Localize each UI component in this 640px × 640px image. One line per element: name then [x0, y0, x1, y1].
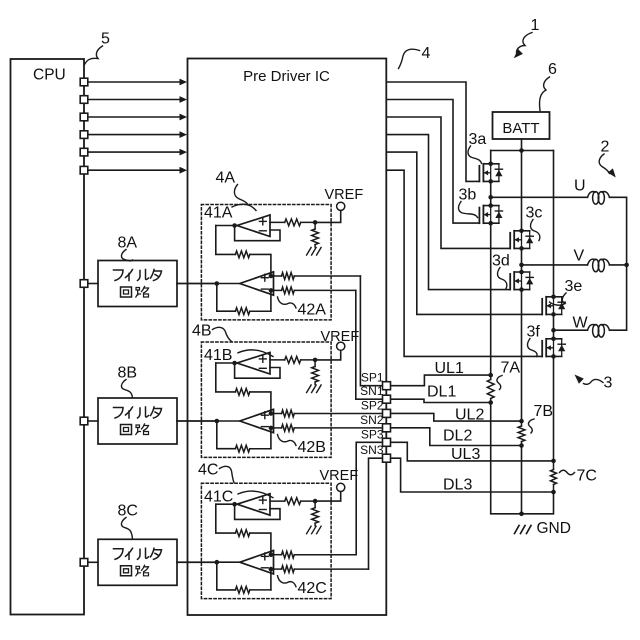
Pre Driver IC U4 — [188, 59, 387, 616]
terminal SN1 — [383, 395, 391, 403]
label 4B — [192, 323, 212, 340]
ground below VREF resistor A — [307, 248, 322, 256]
label SN1 — [360, 384, 384, 398]
CPU block U5 — [11, 59, 85, 615]
resistor 7C — [551, 459, 557, 495]
op-amp 41B — [237, 353, 270, 375]
wire 3d source to shunt 7B — [521, 290, 523, 422]
svg-text:6: 6 — [548, 61, 557, 78]
wire 41C output — [216, 502, 237, 507]
resistor VREF B to ground — [312, 360, 319, 385]
op-amp 42C — [240, 551, 274, 574]
svg-text:GND: GND — [537, 520, 571, 537]
label 7A leader — [497, 376, 502, 390]
wire filter 8C to amplifier — [177, 561, 217, 563]
svg-text:DL1: DL1 — [427, 384, 456, 401]
label 5 leader — [85, 46, 103, 65]
label 3a — [469, 131, 487, 148]
svg-text:3a: 3a — [469, 131, 487, 148]
label 41B leader — [238, 350, 273, 357]
label 8C leader — [121, 518, 132, 539]
svg-text:41C: 41C — [204, 488, 233, 505]
svg-text:CPU: CPU — [33, 67, 66, 84]
resistor 42A P input — [269, 273, 361, 280]
resistor 42B feedback — [217, 421, 271, 452]
wire 42A output P to SP1 — [360, 276, 382, 386]
label W — [573, 315, 589, 332]
signal wire CPU to Pre Driver IC 2 — [88, 96, 187, 103]
svg-text:BATT: BATT — [502, 120, 539, 137]
svg-text:SP2: SP2 — [361, 398, 384, 412]
svg-text:UL1: UL1 — [435, 360, 464, 377]
label 1 leader — [517, 33, 533, 53]
label 7B leader — [528, 419, 534, 433]
CPU output terminal 6 — [80, 166, 88, 174]
label 42A — [298, 301, 327, 318]
label 42B leader — [278, 435, 297, 446]
svg-text:SN2: SN2 — [360, 413, 384, 427]
label 2 leader — [599, 154, 609, 174]
node VREF C — [313, 499, 318, 504]
label 41B — [204, 347, 232, 364]
label UL3 — [451, 446, 480, 463]
svg-text:VREF: VREF — [320, 468, 359, 484]
CPU output terminal 4 — [80, 131, 88, 139]
svg-text:42B: 42B — [298, 439, 326, 456]
wire VREF C — [315, 492, 341, 502]
svg-text:8B: 8B — [118, 365, 138, 382]
op-amp 41A — [237, 215, 270, 237]
ground GND symbol — [515, 526, 532, 534]
wire 41A feedback — [235, 226, 280, 241]
signal wire CPU to Pre Driver IC 1 — [88, 79, 187, 86]
label 4C leader — [220, 466, 235, 482]
terminal VREF A — [337, 202, 345, 210]
label 6 leader — [540, 77, 550, 111]
label 3f — [527, 324, 541, 341]
label 42C leader — [278, 576, 297, 587]
CPU terminal to filter 8B — [80, 417, 98, 425]
resistor 42C N input — [269, 566, 369, 573]
resistor 41C input — [270, 498, 315, 505]
transistor Q3e — [542, 295, 565, 317]
svg-text:5: 5 — [101, 31, 110, 48]
svg-text:Pre Driver IC: Pre Driver IC — [243, 68, 330, 85]
svg-text:8A: 8A — [118, 235, 138, 252]
wire VREF A — [315, 210, 341, 222]
label DL3 — [443, 477, 472, 494]
ground below VREF resistor B — [307, 385, 322, 393]
label UL2 — [455, 407, 484, 424]
label 7A — [501, 360, 521, 377]
label 3b leader — [458, 202, 477, 218]
terminal SP2 — [383, 409, 391, 417]
svg-text:3c: 3c — [526, 205, 543, 222]
svg-text:3f: 3f — [527, 324, 541, 341]
resistor 7B — [518, 419, 525, 448]
svg-text:2: 2 — [601, 139, 610, 156]
svg-text:8C: 8C — [118, 503, 138, 520]
wire 3e source to phase W node — [551, 314, 556, 339]
svg-text:7B: 7B — [534, 403, 554, 420]
svg-text:41B: 41B — [204, 347, 232, 364]
label 3 arrowhead — [575, 375, 584, 384]
svg-text:4A: 4A — [216, 170, 236, 187]
signal wire CPU to Pre Driver IC 3 — [88, 114, 187, 121]
terminal VREF B — [337, 342, 345, 350]
CPU output terminal 2 — [80, 96, 88, 104]
wire 42B output to filter — [177, 419, 240, 424]
label V — [574, 248, 585, 265]
wire VREF B — [315, 350, 341, 360]
label 3 leader — [584, 379, 604, 384]
svg-text:42C: 42C — [298, 580, 327, 597]
wire W inductor to star point — [610, 265, 627, 330]
terminal VREF C — [337, 483, 345, 491]
label SP2 — [361, 398, 384, 412]
wire 3f source to shunt 7C — [553, 356, 555, 461]
dashed block 4A — [201, 205, 331, 320]
op-amp 42B — [240, 409, 274, 432]
wire 41A output — [216, 223, 237, 228]
label SN2 — [360, 413, 384, 427]
op-amp 42A — [240, 272, 274, 295]
inductor motor winding W — [588, 324, 610, 337]
label 6 — [548, 61, 557, 78]
svg-text:7A: 7A — [501, 360, 521, 377]
label 4A — [216, 170, 236, 187]
svg-text:1: 1 — [531, 17, 540, 34]
wire shunts to GND rail — [491, 403, 554, 517]
wire rail to 3e drain — [553, 151, 555, 297]
svg-text:W: W — [573, 315, 589, 332]
resistor 41C to 42C — [216, 504, 271, 555]
terminal SN3 — [383, 454, 391, 462]
wire DL3 — [391, 458, 554, 492]
svg-text:SP3: SP3 — [361, 427, 384, 441]
signal wire CPU to Pre Driver IC 5 — [88, 149, 187, 156]
svg-text:UL2: UL2 — [455, 407, 484, 424]
label SP1 — [361, 371, 384, 385]
label VREF B — [321, 329, 360, 345]
svg-text:4B: 4B — [192, 323, 212, 340]
inductor motor winding U — [588, 192, 610, 205]
wire DL1 — [391, 399, 491, 402]
transistor Q3b — [479, 203, 502, 225]
svg-text:DL3: DL3 — [443, 477, 472, 494]
transistor Q3a — [479, 162, 502, 184]
wire 42C output P to SP3 — [356, 442, 382, 554]
wire 41C feedback — [235, 504, 280, 519]
label DL1 — [427, 384, 456, 401]
label 42B — [298, 439, 326, 456]
CPU terminal to filter 8C — [80, 559, 98, 567]
wire 3b source to shunt 7A — [490, 223, 492, 375]
wire 3c source to phase V node — [519, 248, 524, 272]
svg-text:UL3: UL3 — [451, 446, 480, 463]
node VREF A — [313, 220, 318, 225]
resistor 41A input — [270, 219, 315, 226]
label UL1 — [435, 360, 464, 377]
label SP3 — [361, 427, 384, 441]
dashed block 4C — [201, 483, 331, 598]
svg-text:DL2: DL2 — [443, 428, 472, 445]
label 41A — [204, 205, 233, 222]
label 7B — [534, 403, 554, 420]
label 3d — [492, 253, 510, 270]
resistor 41B input — [270, 357, 315, 364]
resistor 7A — [487, 373, 494, 405]
label 42C — [298, 580, 327, 597]
terminal SP1 — [383, 382, 391, 390]
resistor 42C feedback — [217, 562, 271, 593]
wire 41B feedback — [235, 363, 280, 378]
label 8B — [118, 365, 138, 382]
wire 42A output N to SN1 — [356, 290, 383, 399]
svg-text:4: 4 — [422, 45, 431, 62]
gate drive wire to 3e — [386, 152, 542, 314]
label 4B leader — [213, 327, 232, 341]
node U — [491, 196, 588, 198]
resistor VREF C to ground — [312, 501, 319, 526]
ground below VREF resistor C — [307, 526, 322, 534]
svg-text:4C: 4C — [198, 462, 218, 479]
wire filter 8B to amplifier — [177, 420, 217, 422]
svg-text:3d: 3d — [492, 253, 510, 270]
label 8B leader — [121, 380, 132, 398]
svg-text:V: V — [574, 248, 585, 265]
wire 42C output to filter — [177, 560, 240, 565]
CPU terminal to filter 8A — [80, 280, 98, 288]
label 3d leader — [497, 268, 506, 289]
label 2 arrowhead — [608, 168, 616, 177]
wire UL2 — [391, 413, 522, 421]
svg-text:3e: 3e — [565, 278, 583, 295]
gate drive wire to 3c — [386, 117, 510, 248]
label 41C — [204, 488, 233, 505]
label GND — [537, 520, 571, 537]
label 3e leader — [550, 293, 567, 305]
wire rail to 3a drain — [490, 151, 492, 164]
label 1 arrowhead — [514, 49, 523, 58]
label 1 — [531, 17, 540, 34]
svg-text:VREF: VREF — [325, 187, 364, 203]
label 3a leader — [468, 146, 482, 164]
wire 41B output — [216, 361, 237, 366]
dashed block 4B — [201, 342, 331, 457]
wire filter 8A to amplifier — [177, 283, 217, 285]
resistor 41A to 42A — [216, 226, 271, 277]
wire 3a source to phase U node — [488, 181, 493, 205]
svg-text:SP1: SP1 — [361, 371, 384, 385]
wire BATT to bridge rail — [491, 139, 554, 153]
wire 42A output to filter — [177, 281, 240, 286]
filter block 8B — [98, 398, 177, 444]
svg-text:3b: 3b — [459, 187, 477, 204]
svg-text:SN3: SN3 — [360, 443, 384, 457]
resistor 42A feedback — [217, 284, 271, 315]
label SN3 — [360, 443, 384, 457]
resistor 42B N input — [269, 425, 383, 432]
svg-text:U: U — [574, 178, 586, 195]
svg-text:VREF: VREF — [321, 329, 360, 345]
wire DL2 — [391, 428, 522, 446]
label 4A leader — [234, 185, 247, 205]
resistor 42C P input — [269, 551, 357, 558]
label 41C leader — [238, 491, 273, 498]
terminal SP3 — [383, 438, 391, 446]
transistor Q3f — [542, 337, 565, 359]
node V — [522, 264, 588, 266]
filter block 8A — [98, 261, 177, 307]
label 3c leader — [530, 220, 539, 241]
label 8C — [118, 503, 138, 520]
label 7C — [577, 468, 597, 485]
svg-text:7C: 7C — [577, 468, 597, 485]
label VREF C — [320, 468, 359, 484]
CPU output terminal 1 — [80, 78, 88, 86]
filter block 8C — [98, 539, 177, 585]
signal wire CPU to Pre Driver IC 4 — [88, 131, 187, 138]
gate drive wire to 3f — [386, 170, 542, 356]
label 5 — [101, 31, 110, 48]
label 3e — [565, 278, 583, 295]
label DL2 — [443, 428, 472, 445]
node W — [554, 329, 588, 331]
label 2 — [601, 139, 610, 156]
label 4 — [422, 45, 431, 62]
node VREF B — [313, 358, 318, 363]
op-amp 41C — [237, 494, 270, 516]
label 7C leader — [560, 470, 575, 475]
resistor 42A N input — [269, 287, 356, 294]
wire 42C output N to SN3 — [369, 458, 383, 569]
label VREF A — [325, 187, 364, 203]
inductor motor winding V — [588, 259, 610, 272]
CPU output terminal 5 — [80, 148, 88, 156]
battery BATT — [493, 112, 550, 139]
label 8A leader — [121, 250, 132, 261]
CPU output terminal 3 — [80, 113, 88, 121]
label 42A leader — [278, 297, 297, 308]
gate drive wire to 3d — [386, 135, 510, 290]
gate drive wire to 3b — [386, 100, 479, 224]
label 4C — [198, 462, 218, 479]
transistor Q3c — [510, 229, 533, 251]
resistor 41B to 42B — [216, 363, 271, 414]
svg-text:42A: 42A — [298, 301, 327, 318]
signal wire CPU to Pre Driver IC 6 — [88, 167, 187, 174]
svg-text:3: 3 — [604, 375, 613, 392]
label 4 leader — [399, 49, 420, 68]
label 3f leader — [527, 339, 537, 357]
gate drive wire to 3a — [386, 82, 479, 181]
svg-text:41A: 41A — [204, 205, 233, 222]
wire rail to 3c drain — [521, 151, 523, 231]
resistor VREF A to ground — [312, 222, 319, 247]
label 41A leader — [232, 204, 256, 210]
label 8A — [118, 235, 138, 252]
wire U inductor to star point — [610, 197, 627, 265]
resistor 42B P input — [269, 410, 383, 417]
transistor Q3d — [510, 270, 533, 292]
label U — [574, 178, 586, 195]
wire UL1 — [391, 375, 491, 386]
label 3b — [459, 187, 477, 204]
label 3c — [526, 205, 543, 222]
wire V inductor to star point — [610, 263, 629, 268]
label 3 — [604, 375, 613, 392]
wire UL3 — [391, 442, 554, 461]
terminal SN2 — [383, 424, 391, 432]
